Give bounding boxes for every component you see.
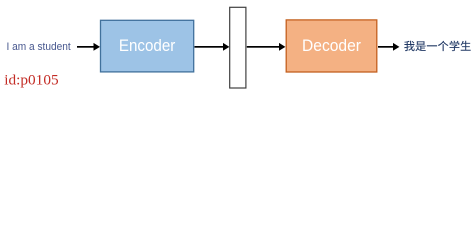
arrow input->encoder — [77, 43, 100, 51]
arrow encoder->vector — [195, 43, 230, 51]
seq2seq encoder-decoder diagram — [0, 0, 474, 91]
arrow decoder->output — [378, 43, 399, 51]
output text (Chinese glyph paths) — [404, 41, 471, 52]
svg-text:Encoder: Encoder — [119, 37, 176, 55]
svg-text:Decoder: Decoder — [302, 37, 361, 55]
encoder box — [101, 20, 194, 72]
svg-text:id:p0105: id:p0105 — [4, 72, 58, 88]
decoder box — [286, 20, 377, 72]
svg-text:I am a student: I am a student — [7, 41, 71, 53]
arrow vector->decoder — [247, 43, 286, 51]
context vector (thin rectangle) — [230, 7, 246, 88]
